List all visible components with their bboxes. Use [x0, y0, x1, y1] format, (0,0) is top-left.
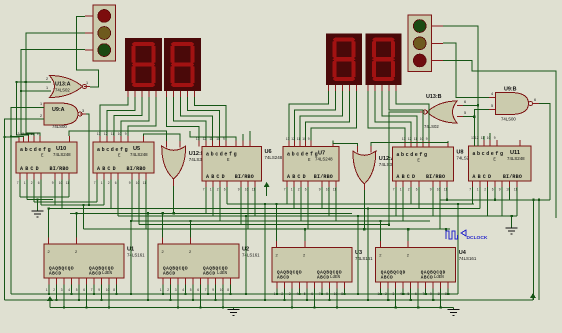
svg-text:1: 1	[86, 81, 88, 85]
svg-text:abcdefg: abcdefg	[287, 152, 319, 158]
svg-text:10: 10	[302, 137, 306, 141]
svg-text:1: 1	[101, 181, 103, 185]
svg-text:BI/RBO: BI/RBO	[314, 174, 333, 180]
U3 bottom pins	[277, 282, 345, 289]
svg-text:74LS02: 74LS02	[424, 124, 439, 129]
svg-text:11: 11	[143, 181, 147, 185]
traffic light TL1	[85, 5, 116, 61]
svg-text:1: 1	[378, 292, 380, 296]
wire bundle DISP3 to U7	[289, 91, 357, 141]
svg-text:10: 10	[438, 292, 442, 296]
wire junction dots	[3, 81, 540, 309]
wire U6 riser A	[190, 131, 236, 141]
svg-text:ABCD: ABCD	[421, 276, 434, 281]
wire U3 clk riser	[276, 204, 278, 241]
decoder U7 74LS248	[283, 147, 339, 182]
svg-text:13: 13	[97, 132, 101, 136]
svg-text:10: 10	[220, 288, 224, 292]
svg-text:74LS248: 74LS248	[130, 152, 148, 157]
wire bus line l1	[20, 196, 69, 198]
U3 top pins	[277, 241, 306, 248]
svg-text:74LS00: 74LS00	[52, 124, 67, 129]
U4 bottom pins	[381, 282, 449, 289]
svg-text:1: 1	[46, 288, 48, 292]
7-segment display DISP4	[366, 34, 402, 86]
svg-text:1: 1	[40, 102, 42, 106]
svg-text:5: 5	[304, 292, 306, 296]
ground G3	[228, 308, 240, 316]
wire bus line l10	[84, 228, 450, 230]
svg-text:2: 2	[298, 188, 300, 192]
svg-text:10: 10	[106, 288, 110, 292]
svg-text:BI/RBO: BI/RBO	[50, 166, 69, 172]
wire TL2 red net	[443, 60, 556, 218]
U5 top pins	[100, 136, 143, 142]
power arrow P2	[47, 296, 53, 308]
svg-text:5: 5	[408, 292, 410, 296]
svg-text:9: 9	[37, 132, 39, 136]
svg-text:74LS248: 74LS248	[265, 155, 283, 160]
power arrow P3	[530, 293, 536, 300]
svg-text:4: 4	[491, 92, 493, 96]
svg-text:3: 3	[82, 109, 84, 113]
svg-text:6: 6	[224, 188, 226, 192]
svg-text:9: 9	[430, 292, 432, 296]
svg-text:9: 9	[430, 188, 432, 192]
svg-text:U13:B: U13:B	[426, 94, 442, 100]
svg-text:12: 12	[104, 132, 108, 136]
svg-text:BI/RBO: BI/RBO	[235, 174, 254, 180]
U10 bottom pins	[20, 173, 69, 180]
svg-text:7: 7	[203, 188, 205, 192]
power arrow P1	[264, 182, 270, 196]
wire bus line l12	[440, 199, 550, 201]
svg-text:6: 6	[416, 188, 418, 192]
svg-text:9: 9	[238, 188, 240, 192]
U12:A gate stubs	[358, 146, 371, 190]
svg-text:3: 3	[289, 292, 291, 296]
wire U9:A input2	[4, 119, 44, 300]
svg-text:12: 12	[20, 132, 24, 136]
svg-text:11: 11	[66, 181, 70, 185]
svg-text:13: 13	[402, 137, 406, 141]
svg-text:4: 4	[68, 288, 70, 292]
svg-text:10: 10	[506, 188, 510, 192]
display DISP3 pins	[329, 85, 357, 91]
wire bottom rail 3	[50, 307, 454, 309]
wire U13:A input2	[21, 90, 51, 92]
wire drops U10 bottom	[20, 180, 69, 209]
decoder U8 74LS248	[392, 147, 474, 181]
wire bus-to-rail vertical b	[147, 213, 149, 300]
wire U1 ent riser	[76, 213, 78, 237]
wire bundle DISP4 to U8	[368, 91, 429, 141]
svg-text:LdEN: LdEN	[330, 275, 341, 280]
svg-text:4: 4	[400, 292, 402, 296]
svg-text:ABCD: ABCD	[396, 174, 417, 180]
svg-text:BI/RBO: BI/RBO	[503, 174, 522, 180]
wire bus line l6	[70, 212, 352, 214]
counter U4 74LS161	[376, 248, 477, 283]
U9:A input/output stubs	[38, 108, 86, 120]
U6 top pins	[199, 141, 250, 147]
U13:B input/output stubs	[420, 105, 463, 116]
svg-text:6: 6	[305, 188, 307, 192]
svg-text:8: 8	[113, 288, 115, 292]
svg-text:6: 6	[197, 288, 199, 292]
wire U9:B output net	[539, 104, 550, 200]
wire elbow column	[83, 205, 85, 229]
wire elbow to U10 pin2	[11, 135, 24, 138]
svg-text:74LS248: 74LS248	[53, 152, 71, 157]
svg-text:7: 7	[91, 288, 93, 292]
counter U3 74LS161	[272, 248, 373, 283]
svg-text:7: 7	[205, 288, 207, 292]
IC pin number labels	[16, 132, 518, 296]
svg-text:LdEN: LdEN	[102, 271, 113, 276]
svg-text:74LS02: 74LS02	[55, 88, 70, 93]
svg-text:5: 5	[190, 288, 192, 292]
svg-text:1: 1	[291, 188, 293, 192]
svg-text:7: 7	[319, 292, 321, 296]
svg-text:11: 11	[333, 188, 337, 192]
svg-text:10: 10	[420, 137, 424, 141]
U8 top pins	[405, 141, 448, 147]
wire bus line l9	[139, 224, 389, 226]
wire U3 ent riser	[304, 229, 306, 241]
wire U1 clk riser	[48, 209, 50, 238]
svg-text:ABCD: ABCD	[97, 166, 118, 172]
svg-text:7: 7	[469, 188, 471, 192]
wire U2 ent riser	[190, 221, 192, 238]
display DISP2 pins	[167, 91, 195, 97]
wire U10 BI to U12:B in1	[69, 131, 167, 141]
counter U2 74LS161	[158, 244, 260, 278]
svg-text:ABCD: ABCD	[472, 174, 493, 180]
wire right long vertical A	[533, 200, 535, 300]
svg-text:ABCD: ABCD	[89, 272, 102, 277]
svg-text:ABCD: ABCD	[49, 272, 62, 277]
wire U12:A output drop	[363, 190, 365, 229]
svg-text:BI/RBO: BI/RBO	[127, 166, 146, 172]
U13:A input/output stubs	[44, 82, 90, 91]
svg-text:3: 3	[175, 288, 177, 292]
display DISP1 pins	[128, 91, 156, 97]
decoder U10 74LS248	[16, 142, 77, 173]
U1 bottom pins	[49, 278, 117, 285]
wire U5 BI to U12:B in2	[143, 134, 180, 141]
svg-text:3: 3	[393, 292, 395, 296]
svg-text:9: 9	[223, 137, 225, 141]
svg-text:11: 11	[111, 132, 115, 136]
svg-text:11: 11	[252, 188, 256, 192]
U12:B gate stubs	[167, 141, 181, 186]
svg-text:abcdefg: abcdefg	[206, 152, 238, 158]
svg-text:74LS161: 74LS161	[459, 256, 477, 261]
wire U4 clk riser	[379, 221, 381, 241]
svg-text:1: 1	[24, 181, 26, 185]
svg-text:DCLOCK: DCLOCK	[467, 235, 488, 241]
svg-text:2: 2	[217, 188, 219, 192]
ground G1	[31, 200, 43, 218]
svg-text:5: 5	[491, 104, 493, 108]
U11 bottom pins	[472, 181, 517, 187]
wire bottom rail 1	[11, 293, 458, 295]
svg-text:10: 10	[245, 188, 249, 192]
svg-text:6: 6	[492, 188, 494, 192]
svg-text:11: 11	[481, 136, 485, 140]
traffic light TL2	[408, 15, 443, 72]
clock generator DCLOCK	[446, 230, 488, 241]
svg-text:10: 10	[437, 188, 441, 192]
NAND gate U9:A	[44, 103, 82, 129]
svg-text:7: 7	[17, 181, 19, 185]
svg-text:9: 9	[52, 181, 54, 185]
wire U12:B output drop	[173, 186, 175, 213]
svg-text:74LS00: 74LS00	[501, 117, 516, 122]
svg-text:11: 11	[209, 137, 213, 141]
svg-text:7: 7	[94, 181, 96, 185]
wire bus-to-rail vertical f	[367, 209, 369, 301]
U5 bottom pins	[97, 173, 146, 180]
counter U1 74LS161	[44, 244, 145, 278]
wire bus-to-rail vertical d	[264, 204, 266, 300]
svg-text:74LS248: 74LS248	[507, 156, 525, 161]
NOR gate U13:A	[50, 76, 87, 98]
ground G2	[506, 216, 518, 234]
wire bus line l4	[41, 204, 104, 206]
svg-text:1: 1	[46, 86, 48, 90]
svg-text:LdEN: LdEN	[217, 271, 228, 276]
svg-text:13: 13	[16, 132, 20, 136]
U9:B input/output stubs	[489, 98, 539, 110]
svg-text:ABCD: ABCD	[20, 166, 41, 172]
svg-text:ABCD: ABCD	[287, 174, 308, 180]
svg-text:13: 13	[196, 137, 200, 141]
svg-text:2: 2	[385, 292, 387, 296]
wire TL1 green net	[21, 50, 85, 137]
U7 top pins	[289, 141, 333, 147]
wire bus line l11	[227, 203, 474, 205]
wire TL1 red to U13:A output	[76, 17, 98, 88]
svg-text:ABCD: ABCD	[206, 174, 227, 180]
wire elbow to U10 pin1	[4, 136, 19, 137]
svg-text:11: 11	[25, 132, 29, 136]
wire bus-to-rail vertical e	[357, 216, 359, 294]
U7 bottom pins	[287, 181, 336, 187]
U2 bottom pins	[163, 278, 231, 285]
decoder U5 74LS248	[93, 142, 154, 173]
svg-text:9: 9	[308, 137, 310, 141]
wire drops U7 bottom	[287, 187, 336, 229]
NOR gate U13:B (mirrored)	[423, 94, 457, 129]
U1 top pins	[49, 238, 77, 244]
svg-text:8: 8	[341, 292, 343, 296]
svg-text:2: 2	[40, 114, 42, 118]
svg-text:BI/RBO: BI/RBO	[426, 174, 445, 180]
svg-text:3: 3	[61, 288, 63, 292]
svg-text:11: 11	[444, 188, 448, 192]
svg-text:1: 1	[160, 288, 162, 292]
svg-text:ABCD: ABCD	[203, 272, 216, 277]
svg-text:2: 2	[31, 181, 33, 185]
svg-text:7: 7	[393, 188, 395, 192]
svg-text:11: 11	[514, 188, 518, 192]
svg-text:10: 10	[216, 137, 220, 141]
svg-text:2: 2	[408, 188, 410, 192]
svg-text:9: 9	[326, 292, 328, 296]
svg-text:1: 1	[274, 292, 276, 296]
svg-text:6: 6	[38, 181, 40, 185]
wire U13:B input2 link	[463, 116, 474, 118]
svg-text:1: 1	[210, 188, 212, 192]
svg-text:5: 5	[76, 288, 78, 292]
svg-text:9: 9	[499, 188, 501, 192]
wire U7 BI to U12:A in1	[333, 141, 358, 147]
svg-text:74LS161: 74LS161	[242, 253, 260, 258]
svg-text:12: 12	[475, 136, 479, 140]
wire drops U5 bottom	[97, 180, 146, 230]
U6 bottom pins	[206, 181, 255, 187]
svg-text:abcdefg: abcdefg	[472, 151, 504, 157]
7-segment display DISP1	[125, 38, 162, 91]
wire U13:B input1 link	[463, 104, 478, 106]
wire bus line l8	[132, 220, 430, 222]
svg-text:9: 9	[125, 132, 127, 136]
wire drops U6 bottom	[206, 187, 255, 229]
decoder U6 74LS248	[202, 147, 283, 182]
svg-text:2: 2	[53, 288, 55, 292]
svg-text:4: 4	[296, 292, 298, 296]
svg-text:2: 2	[484, 188, 486, 192]
wire bus-to-rail vertical c	[245, 216, 247, 294]
svg-text:10: 10	[326, 188, 330, 192]
svg-text:10: 10	[59, 181, 63, 185]
svg-text:ABCD: ABCD	[381, 276, 394, 281]
U11 top pins	[474, 140, 520, 146]
svg-text:U9:A: U9:A	[52, 107, 65, 113]
wire U4 ent riser	[407, 229, 409, 241]
svg-text:9: 9	[212, 288, 214, 292]
U2 top pins	[163, 238, 191, 244]
svg-text:11: 11	[297, 137, 301, 141]
svg-text:9: 9	[426, 137, 428, 141]
wire U9:A input1	[11, 108, 44, 295]
wire U13:B output net	[389, 112, 420, 225]
svg-text:8: 8	[445, 292, 447, 296]
display DISP4 pins	[368, 85, 396, 91]
OR gate U12:A (vertical)	[353, 151, 395, 184]
7-segment display DISP2	[164, 38, 201, 91]
wire drops U8 bottom	[396, 187, 447, 229]
wire TL1 amber net	[26, 33, 85, 136]
svg-text:abcdefg: abcdefg	[97, 147, 129, 153]
svg-text:2: 2	[46, 77, 48, 81]
wire bus-to-rail vertical g	[457, 204, 459, 294]
wire bus line l7	[118, 215, 517, 217]
wire right long vertical B	[538, 200, 540, 300]
wire bottom rail 2	[4, 299, 533, 301]
svg-text:10: 10	[487, 136, 491, 140]
wire bundle DISP2 to U6	[167, 97, 227, 141]
svg-text:6: 6	[115, 181, 117, 185]
wire bus line l5 long	[49, 208, 480, 210]
wire U13:A input1	[16, 82, 51, 136]
svg-text:12: 12	[408, 137, 412, 141]
svg-text:abcdefg: abcdefg	[20, 147, 52, 153]
wire U11 riser A	[483, 136, 485, 140]
OR gate U12:B (vertical)	[162, 146, 205, 179]
wire bundle DISP1 to U5	[100, 97, 156, 136]
svg-text:13: 13	[286, 137, 290, 141]
svg-text:5: 5	[464, 111, 466, 115]
svg-text:1: 1	[400, 188, 402, 192]
svg-text:10: 10	[118, 132, 122, 136]
svg-text:2: 2	[167, 288, 169, 292]
svg-text:10: 10	[136, 181, 140, 185]
svg-text:6: 6	[464, 100, 466, 104]
wire TL2 amber net	[443, 43, 489, 97]
svg-text:9: 9	[129, 181, 131, 185]
7-segment display DISP3	[326, 34, 362, 86]
svg-text:10: 10	[31, 132, 35, 136]
svg-text:11: 11	[414, 137, 418, 141]
svg-text:abcdefg: abcdefg	[396, 152, 428, 158]
wire drops counters bottom	[49, 285, 448, 308]
svg-text:2: 2	[281, 292, 283, 296]
svg-text:ABCD: ABCD	[317, 276, 330, 281]
wire U6 riser C	[249, 131, 251, 141]
pin number labels	[40, 77, 536, 118]
svg-text:ABCD: ABCD	[277, 276, 290, 281]
svg-text:2: 2	[108, 181, 110, 185]
wire U2 clk riser	[162, 213, 164, 237]
svg-text:6: 6	[534, 98, 536, 102]
svg-text:12: 12	[203, 137, 207, 141]
wire TL2 green net	[443, 26, 478, 146]
wire drops U11 bottom	[472, 187, 517, 216]
svg-text:7: 7	[423, 292, 425, 296]
svg-text:4: 4	[182, 288, 184, 292]
svg-text:6: 6	[311, 292, 313, 296]
decoder U11 74LS248	[468, 146, 531, 181]
svg-text:6: 6	[415, 292, 417, 296]
svg-text:9: 9	[319, 188, 321, 192]
NAND gate U9:B	[496, 87, 533, 122]
svg-text:6: 6	[83, 288, 85, 292]
U4 top pins	[380, 241, 408, 248]
svg-text:LdEN: LdEN	[434, 275, 445, 280]
svg-text:7: 7	[284, 188, 286, 192]
ground G4	[448, 308, 460, 316]
svg-text:8: 8	[227, 288, 229, 292]
svg-text:9: 9	[494, 136, 496, 140]
svg-text:12: 12	[291, 137, 295, 141]
wire bus line l2	[27, 199, 53, 201]
svg-text:U9:B: U9:B	[504, 87, 517, 93]
svg-text:1: 1	[477, 188, 479, 192]
wire U9:B input2 net	[474, 110, 489, 147]
svg-text:9: 9	[98, 288, 100, 292]
wire U11 riser B	[489, 133, 491, 140]
wire bus-to-rail vertical a	[130, 221, 132, 294]
wire U12:A in2 to U8 pin	[371, 141, 448, 146]
U8 bottom pins	[396, 181, 447, 187]
wire bus line l3	[34, 201, 97, 203]
svg-text:ABCD: ABCD	[163, 272, 176, 277]
svg-text:10: 10	[334, 292, 338, 296]
wire U6 riser B	[242, 134, 244, 141]
